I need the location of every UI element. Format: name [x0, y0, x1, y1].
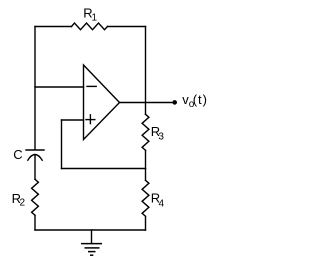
resistor R4 — [142, 180, 149, 216]
label R1 — [83, 6, 97, 24]
resistor R2 — [32, 179, 39, 215]
wire noninverting input — [62, 119, 84, 121]
resistor R3 — [142, 114, 149, 150]
wire R3 to junction — [145, 150, 147, 168]
op-amp U1 — [84, 65, 120, 140]
wire feedback horizontal — [62, 168, 146, 170]
wire top-left segment — [35, 26, 72, 28]
wire left rail — [34, 27, 36, 150]
op-amp plus sign — [86, 119, 95, 121]
wire feedback vertical — [61, 120, 63, 169]
label R3 — [151, 124, 165, 142]
svg-text:2: 2 — [20, 197, 26, 208]
wire top-right segment — [108, 26, 146, 28]
svg-text:C: C — [13, 147, 22, 162]
ground bars — [81, 244, 102, 256]
ground stem — [91, 230, 93, 244]
wire right rail upper — [145, 27, 147, 115]
svg-text:3: 3 — [158, 131, 164, 142]
svg-text:4: 4 — [159, 198, 165, 209]
op-amp minus sign — [87, 85, 96, 87]
resistor R1 — [72, 23, 108, 30]
wire capacitor to R2 — [34, 155, 36, 180]
wire R2 to bottom — [34, 215, 36, 230]
label vo(t) — [182, 92, 208, 110]
svg-text:(t): (t) — [193, 92, 208, 107]
wire inverting input — [35, 86, 84, 88]
label R2 — [12, 191, 26, 209]
svg-text:1: 1 — [92, 13, 98, 24]
label R4 — [151, 191, 165, 210]
wire output — [120, 102, 174, 104]
capacitor C top plate — [26, 149, 44, 151]
wire bottom rail — [35, 229, 146, 231]
node vo terminal dot — [172, 100, 177, 105]
capacitor C curved plate — [28, 155, 42, 161]
wire junction to R4 — [145, 169, 147, 181]
wire R4 to bottom — [145, 216, 147, 230]
